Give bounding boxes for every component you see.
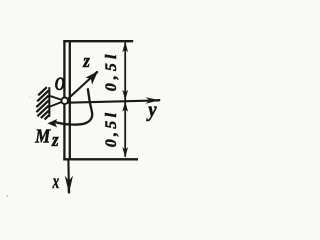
pin support link upper [49, 96, 63, 101]
svg-text:z: z [51, 129, 59, 150]
svg-text:M: M [34, 125, 51, 148]
x axis arrowhead tip stub [68, 190, 70, 193]
y axis [68, 100, 158, 102]
z axis arrowhead tip stub [95, 72, 97, 74]
dimension arrow middle upper (down) [122, 90, 128, 100]
bar left edge [63, 40, 65, 160]
bar top edge + top extension line [63, 40, 133, 42]
z axis [65, 74, 96, 103]
pin circle at origin O [61, 98, 68, 105]
dimension arrow bottom (down) [122, 147, 128, 157]
bar bottom edge + bottom extension line [63, 158, 138, 160]
wall edge line [48, 87, 50, 117]
y axis arrowhead [145, 97, 160, 104]
pin support link lower [49, 101, 63, 107]
moment arc arrowhead [47, 119, 57, 127]
svg-text:O: O [55, 73, 65, 95]
moment arc M_z [56, 88, 93, 124]
bar right edge [69, 40, 71, 160]
dimension line [124, 43, 126, 157]
y axis arrowhead tip stub [157, 99, 160, 102]
svg-text:0,5l: 0,5l [103, 50, 120, 91]
svg-text:0,5l: 0,5l [103, 110, 120, 148]
x axis arrowhead [65, 176, 73, 194]
dimension arrow top (up) [122, 42, 128, 52]
svg-text:x: x [52, 169, 59, 193]
z axis arrowhead [86, 71, 98, 84]
dimension arrow middle lower (up) [122, 101, 128, 111]
wall hatching [36, 87, 48, 119]
x axis [67, 160, 70, 191]
scan speckles [6, 195, 8, 197]
svg-text:z: z [82, 50, 90, 71]
